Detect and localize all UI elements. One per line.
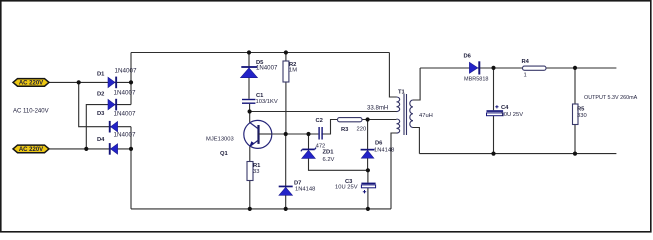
svg-text:D1: D1	[97, 72, 105, 78]
diode D6 MBR5818 output	[464, 54, 489, 83]
svg-text:AC 220V: AC 220V	[19, 147, 43, 153]
secondary winding	[410, 100, 413, 128]
svg-text:1N4007: 1N4007	[114, 111, 137, 118]
wire D6 branch	[367, 120, 369, 171]
wire minus bus lower	[130, 127, 132, 209]
capacitor C4 10U 25V	[487, 105, 524, 118]
wire output bottom	[419, 153, 616, 155]
wire D6 node to C3	[367, 170, 369, 182]
wire secondary bottom lead	[413, 128, 419, 154]
node bottom rail D7	[284, 207, 288, 211]
capacitor C1 103/1KV	[242, 93, 278, 105]
node ZD1-D6-C3	[366, 168, 370, 172]
capacitor C3 10U 25V	[335, 179, 376, 194]
svg-text:10U 25V: 10U 25V	[501, 112, 524, 118]
svg-text:10U 25V: 10U 25V	[335, 185, 358, 191]
wire Q1 emitter lead	[249, 147, 251, 162]
diode D4 1N4007	[97, 132, 136, 155]
node output bottom C4	[491, 152, 495, 156]
wire C4 branch top	[493, 68, 495, 110]
svg-text:MBR5818: MBR5818	[464, 76, 488, 82]
svg-text:D6: D6	[464, 54, 472, 60]
resistor R5 330	[573, 104, 587, 125]
node output top C4	[491, 66, 495, 70]
resistor R1 33	[247, 162, 261, 181]
node bottom rail C3	[366, 207, 370, 211]
svg-text:D3: D3	[97, 111, 105, 117]
svg-text:R5: R5	[577, 107, 585, 113]
svg-text:1: 1	[524, 72, 527, 78]
svg-text:D2: D2	[97, 92, 104, 98]
wire bottom rail	[131, 208, 391, 210]
svg-text:103/1KV: 103/1KV	[256, 99, 278, 105]
wire D7 branch	[285, 134, 287, 209]
wire R2 to base node	[285, 82, 287, 134]
svg-text:D4: D4	[97, 137, 105, 143]
diode D6 1N4148	[361, 141, 395, 159]
svg-text:C2: C2	[316, 118, 323, 124]
svg-text:OUTPUT 5.3V 260mA: OUTPUT 5.3V 260mA	[584, 95, 638, 101]
svg-text:ZD1: ZD1	[323, 150, 335, 156]
diode D3 1N4007	[97, 111, 136, 133]
diode D5 1N4007	[241, 60, 278, 78]
svg-text:1M: 1M	[289, 68, 297, 74]
wire C1 to collector node	[249, 104, 251, 112]
wire Q1 collector lead	[249, 112, 251, 123]
node D1 cathode bus	[129, 80, 133, 84]
svg-text:MJE13003: MJE13003	[206, 136, 234, 142]
node collector C1	[248, 109, 252, 113]
svg-text:AC 110-240V: AC 110-240V	[13, 109, 49, 115]
svg-text:330: 330	[577, 113, 587, 119]
wire collector to primary	[250, 111, 397, 113]
svg-text:1N4007: 1N4007	[114, 90, 137, 97]
svg-text:1N4007: 1N4007	[115, 68, 138, 75]
node feedback D6	[366, 117, 370, 121]
svg-text:33.8mH: 33.8mH	[367, 104, 388, 111]
node D4 bus	[129, 147, 133, 151]
svg-text:Q1: Q1	[220, 151, 229, 157]
node top AC junction	[77, 80, 81, 84]
wire R2 top stub	[285, 53, 287, 62]
wire R1 to bottom rail	[249, 181, 251, 209]
node base R2-D7	[284, 132, 288, 136]
wire secondary top lead	[413, 68, 420, 100]
svg-text:D7: D7	[294, 180, 301, 186]
core	[404, 94, 407, 135]
net label AC 220V bottom	[13, 145, 49, 153]
wire output top	[420, 67, 616, 69]
zener ZD1 6.2V	[301, 148, 335, 163]
wire R5 branch bottom	[574, 125, 576, 154]
resistor R3 220	[338, 118, 367, 133]
node bottom rail R1	[248, 207, 252, 211]
wire C2 to R3	[321, 120, 337, 135]
wire R5 branch top	[574, 68, 576, 104]
wire top AC line	[49, 81, 131, 83]
node rail D5	[247, 50, 251, 54]
svg-text:1N4007: 1N4007	[256, 65, 278, 72]
svg-text:C4: C4	[501, 105, 509, 111]
wire ZD1 branch	[309, 134, 368, 170]
wire D5-C1 branch upper	[248, 53, 250, 99]
svg-text:1N4007: 1N4007	[114, 132, 137, 139]
svg-text:6.2V: 6.2V	[323, 157, 335, 163]
svg-text:1N4148: 1N4148	[295, 187, 315, 193]
wire jog top-AC to D3	[79, 82, 131, 126]
resistor R4 1	[522, 59, 547, 79]
svg-text:47uH: 47uH	[419, 113, 433, 119]
diode D7 1N4148	[279, 180, 316, 195]
wire R3 to feedback winding	[362, 119, 397, 121]
wire base	[259, 133, 319, 135]
resistor R2 1M	[283, 61, 297, 82]
transformer T1	[397, 94, 414, 135]
primary winding	[397, 97, 400, 112]
transistor Q1 MJE13003	[206, 120, 272, 156]
wire top rail	[131, 52, 389, 54]
diode D2 1N4007	[97, 90, 136, 111]
wire feedback bottom to bottom rail	[391, 133, 397, 209]
feedback winding	[397, 119, 400, 133]
svg-text:AC 220V: AC 220V	[19, 81, 43, 87]
wire jog bottom-AC to D2	[86, 105, 131, 149]
svg-text:33: 33	[253, 169, 259, 175]
svg-text:D6: D6	[375, 141, 383, 147]
node bottom AC junction	[84, 147, 88, 151]
node output top R5	[573, 66, 577, 70]
wire bottom AC line	[49, 148, 131, 150]
svg-text:1N4148: 1N4148	[374, 148, 394, 154]
capacitor C2 472	[316, 118, 326, 150]
svg-text:R4: R4	[522, 59, 530, 65]
node base ZD1	[306, 132, 310, 136]
svg-text:T1: T1	[398, 90, 406, 96]
diode D1 1N4007	[97, 68, 137, 89]
wire top rail to primary top	[389, 53, 396, 98]
wire C3 to bottom rail	[367, 188, 369, 209]
node rail R2	[284, 50, 288, 54]
wire plus bus upper	[130, 53, 132, 105]
wire C4 branch bottom	[493, 116, 495, 154]
net label AC 220V top	[13, 79, 49, 87]
svg-text:220: 220	[357, 127, 367, 133]
node output bottom R5	[573, 152, 577, 156]
svg-text:R3: R3	[341, 127, 349, 133]
